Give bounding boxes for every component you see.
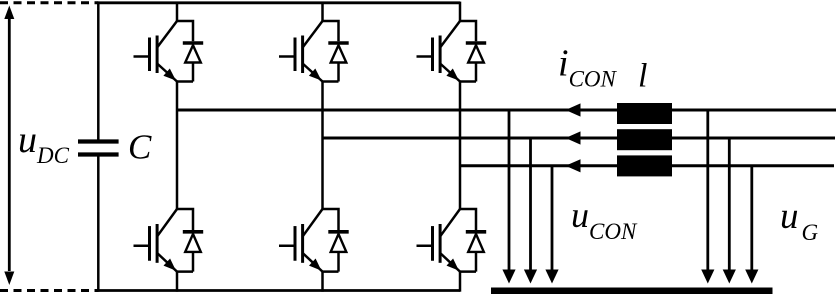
wire: Q5 emitter corner <box>460 80 476 83</box>
grid reference bus bar <box>491 288 773 295</box>
wire: leg B collector lead from top rail <box>321 2 324 21</box>
wire: Q4 emitter corner <box>323 270 339 273</box>
inductor l block phase B <box>617 129 672 150</box>
inductor l block phase A <box>617 103 672 124</box>
wire: leg A lower emitter lead to bottom rail <box>176 272 179 292</box>
i_CON current arrowhead phase B <box>566 131 581 144</box>
transistor Q1 <box>134 21 178 82</box>
wire: Q6 collector corner to diode branch <box>460 209 476 230</box>
wire: phase C output line <box>460 164 834 167</box>
capacitor C <box>78 142 119 155</box>
svg-text:uCON: uCON <box>571 195 638 244</box>
diode D6 <box>466 232 486 272</box>
u_CON measurement arrow phase B <box>524 138 537 284</box>
wire: leg C collector lead from top rail <box>459 2 462 21</box>
wire: leg C midpoint vertical (upper emitter to lower collector) <box>459 82 462 210</box>
u_CON measurement arrow phase A <box>502 110 515 284</box>
transistor Q6 <box>417 209 461 272</box>
wire: Q1 collector corner to diode branch <box>177 21 193 41</box>
svg-text:l: l <box>638 58 647 95</box>
wire: Q2 emitter corner <box>177 270 193 273</box>
diode D1 <box>183 43 203 82</box>
wire: dashed link bottom <box>0 289 98 292</box>
i_CON current arrowhead phase C <box>566 159 581 172</box>
wire: bottom DC rail <box>97 289 460 292</box>
wire: left DC rail upper segment <box>97 2 100 142</box>
u_DC measurement arrow (double headed) <box>4 6 14 286</box>
diode D2 <box>183 232 203 272</box>
u_CON measurement arrow phase C <box>545 166 558 284</box>
svg-text:uG: uG <box>780 196 819 245</box>
svg-text:iCON: iCON <box>558 43 618 92</box>
wire: phase B output line <box>323 137 836 140</box>
wire: Q4 collector corner to diode branch <box>323 209 339 230</box>
wire: phase A output line <box>177 109 836 112</box>
inductor l block phase C <box>617 155 672 176</box>
wire: dashed link top (DC bus to measurement arrow) <box>0 1 98 4</box>
wire: top DC rail <box>97 1 460 4</box>
i_CON current arrowhead phase A <box>566 103 581 116</box>
wire: Q3 collector corner to diode branch <box>323 21 339 41</box>
diode D4 <box>328 232 348 272</box>
wire: leg A collector lead from top rail <box>176 2 179 21</box>
wire: leg A midpoint vertical (upper emitter to lower collector) <box>176 82 179 210</box>
wire: Q6 emitter corner <box>460 270 476 273</box>
svg-text:uDC: uDC <box>18 119 70 168</box>
wire: leg C lower emitter lead to bottom rail <box>459 272 462 292</box>
wire: Q3 emitter corner <box>323 80 339 83</box>
u_G measurement arrow phase A <box>701 110 714 284</box>
wire: left DC rail lower segment <box>97 155 100 292</box>
wire: Q5 collector corner to diode branch <box>460 21 476 41</box>
wire: leg B midpoint vertical (upper emitter to lower collector) <box>321 82 324 210</box>
u_G measurement arrow phase B <box>723 138 736 284</box>
transistor Q3 <box>279 21 323 82</box>
wire: leg B lower emitter lead to bottom rail <box>321 272 324 292</box>
transistor Q4 <box>279 209 323 272</box>
diode D3 <box>328 43 348 82</box>
u_G measurement arrow phase C <box>745 166 758 284</box>
transistor Q2 <box>134 209 178 272</box>
svg-text:C: C <box>128 128 152 167</box>
transistor Q5 <box>417 21 461 82</box>
wire: Q2 collector corner to diode branch <box>177 209 193 230</box>
wire: Q1 emitter corner <box>177 80 193 83</box>
diode D5 <box>466 43 486 82</box>
